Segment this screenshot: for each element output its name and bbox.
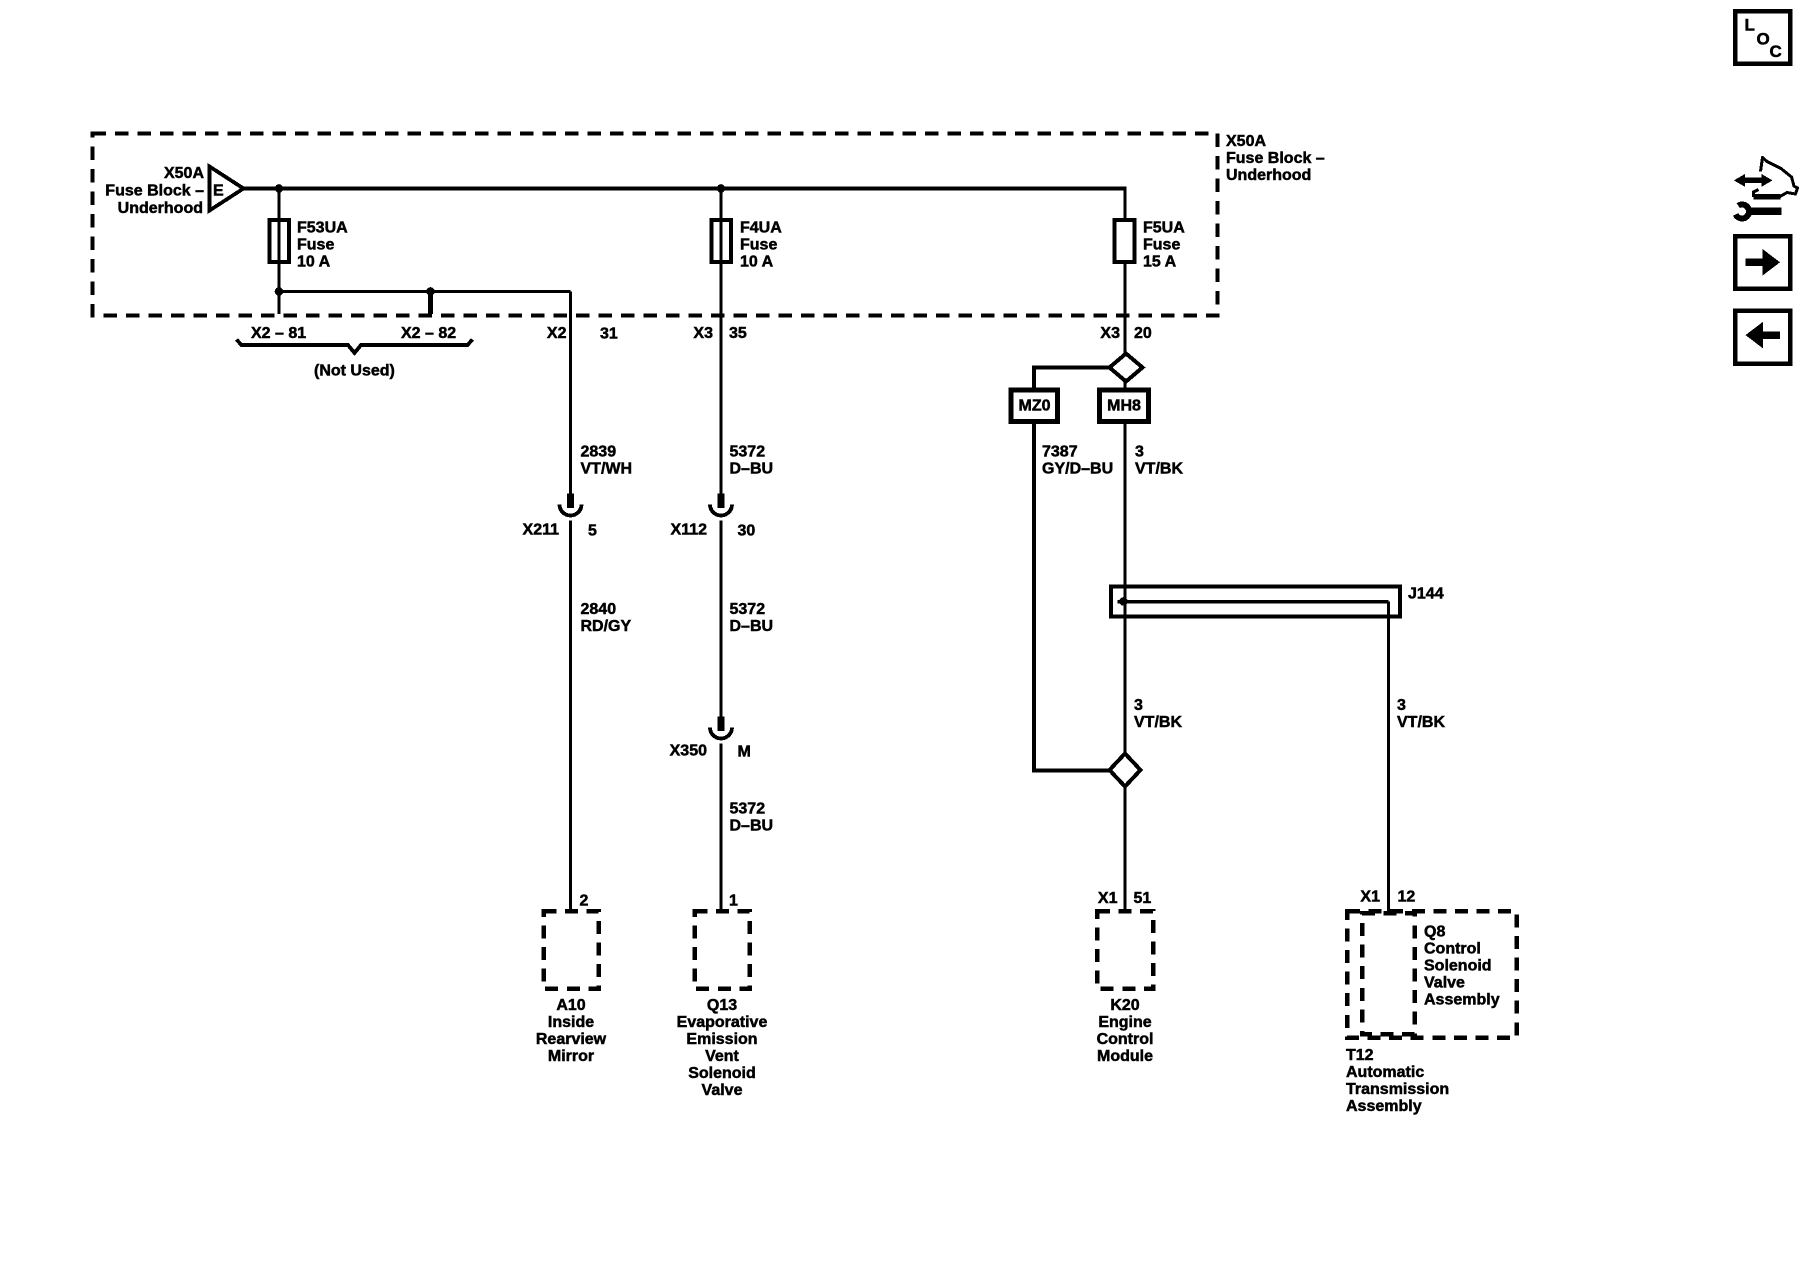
main bus wire [243, 186, 1125, 190]
svg-text:Fuse: Fuse [740, 237, 777, 254]
svg-text:VT/BK: VT/BK [1135, 461, 1183, 478]
wire 3 VT/BK from MH8 [1123, 422, 1126, 754]
svg-text:Control: Control [1097, 1031, 1154, 1048]
svg-text:10 A: 10 A [740, 254, 774, 271]
icon vehicle base bar [1754, 194, 1781, 200]
wire diamond to MZ0 [1034, 368, 1109, 391]
connector MZ0 box [1011, 390, 1058, 422]
icon left arrow box [1735, 311, 1790, 364]
icon wrench handle [1748, 208, 1782, 216]
icon vehicle outline [1761, 158, 1798, 197]
svg-text:K20: K20 [1110, 997, 1139, 1014]
svg-text:Solenoid: Solenoid [688, 1065, 756, 1082]
icon right arrow box [1735, 236, 1790, 289]
svg-text:Q8: Q8 [1424, 924, 1445, 941]
svg-text:J144: J144 [1408, 586, 1444, 603]
component T12 outer dashed box [1347, 911, 1517, 1038]
svg-text:L: L [1745, 16, 1755, 35]
svg-text:51: 51 [1134, 890, 1152, 907]
node below fuse F53UA [275, 287, 284, 296]
node at F4UA tap [717, 184, 726, 193]
fuse F4UA [712, 220, 732, 262]
svg-text:Engine: Engine [1098, 1014, 1151, 1031]
svg-text:3: 3 [1397, 697, 1406, 714]
svg-text:VT/BK: VT/BK [1397, 714, 1445, 731]
connector MH8 box [1100, 390, 1149, 422]
svg-text:5: 5 [588, 523, 597, 540]
svg-text:Fuse: Fuse [1143, 237, 1180, 254]
wire horizontal to X2-31 drop [279, 290, 571, 293]
svg-text:X2 – 81: X2 – 81 [251, 325, 306, 342]
node at F53UA tap [275, 184, 284, 193]
power source triangle E [210, 167, 244, 211]
svg-text:(Not Used): (Not Used) [314, 363, 395, 380]
svg-text:MZ0: MZ0 [1019, 398, 1051, 415]
icon vehicle double arrow [1734, 174, 1773, 187]
svg-text:X2: X2 [547, 325, 567, 342]
splice pack J144 [1111, 587, 1400, 617]
svg-text:Q13: Q13 [707, 997, 737, 1014]
svg-text:Vent: Vent [705, 1048, 739, 1065]
node at X2-82 stub [426, 287, 435, 296]
icon LOC box [1735, 11, 1790, 64]
wire F5UA down [1123, 262, 1126, 354]
svg-text:Transmission: Transmission [1346, 1081, 1449, 1098]
svg-text:15 A: 15 A [1143, 254, 1177, 271]
wire diamond to MH8 [1123, 382, 1126, 391]
svg-text:Assembly: Assembly [1424, 992, 1500, 1009]
component Q13 dashed box [695, 911, 750, 989]
svg-text:Mirror: Mirror [548, 1048, 594, 1065]
fuse F5UA [1115, 220, 1135, 262]
svg-text:X211: X211 [523, 522, 560, 539]
connector X112 pin 30 [718, 494, 725, 509]
svg-text:A10: A10 [556, 997, 585, 1014]
svg-text:Automatic: Automatic [1346, 1064, 1424, 1081]
svg-text:F53UA: F53UA [297, 220, 348, 237]
svg-text:5372: 5372 [730, 444, 766, 461]
svg-text:Fuse: Fuse [297, 237, 334, 254]
component A10 dashed box [544, 911, 599, 989]
node inside J144 [1119, 597, 1128, 606]
svg-text:F5UA: F5UA [1143, 220, 1185, 237]
wire 7387 GY/D-BU [1034, 422, 1110, 771]
svg-text:MH8: MH8 [1107, 398, 1141, 415]
svg-text:31: 31 [600, 326, 618, 343]
wire bus to F53UA fuse [277, 189, 280, 292]
wire 3 VT/BK right from J144 [1387, 602, 1390, 912]
svg-text:Emission: Emission [686, 1031, 757, 1048]
svg-text:35: 35 [729, 325, 747, 342]
splice diamond upper [1110, 354, 1143, 382]
svg-text:Underhood: Underhood [118, 200, 203, 217]
wire bus to F4UA fuse [719, 189, 722, 494]
svg-text:RD/GY: RD/GY [581, 618, 632, 635]
svg-text:X3: X3 [1100, 325, 1120, 342]
component K20 dashed box [1097, 911, 1153, 989]
svg-text:Solenoid: Solenoid [1424, 958, 1492, 975]
svg-text:X1: X1 [1098, 890, 1118, 907]
svg-text:Valve: Valve [1424, 975, 1465, 992]
label X50A Fuse Block - Underhood (right of box) [1226, 133, 1325, 184]
svg-text:D–BU: D–BU [730, 461, 774, 478]
component Q8 inner dashed box [1362, 913, 1415, 1034]
svg-text:D–BU: D–BU [730, 818, 774, 835]
icon wrench head [1735, 205, 1749, 219]
svg-text:GY/D–BU: GY/D–BU [1042, 461, 1113, 478]
brace not used [237, 340, 473, 354]
wire to K20 [1123, 787, 1126, 912]
connector X350 pin M [718, 717, 725, 732]
svg-text:5372: 5372 [730, 601, 766, 618]
wire 2840 RD/GY [569, 521, 572, 912]
svg-text:10 A: 10 A [297, 254, 331, 271]
svg-text:Valve: Valve [702, 1082, 743, 1099]
svg-text:12: 12 [1398, 889, 1416, 906]
svg-text:X2 – 82: X2 – 82 [401, 325, 456, 342]
svg-text:3: 3 [1134, 697, 1143, 714]
svg-text:2: 2 [580, 893, 589, 910]
svg-text:X350: X350 [670, 743, 707, 760]
label X50A Fuse Block - Underhood (left of triangle) [105, 165, 204, 217]
wire 5372 D-BU middle [719, 521, 722, 717]
svg-text:X50A: X50A [164, 165, 204, 182]
svg-text:5372: 5372 [730, 801, 766, 818]
svg-text:VT/BK: VT/BK [1134, 714, 1182, 731]
wire stub X2-81 [277, 292, 280, 315]
svg-text:Fuse Block –: Fuse Block – [105, 183, 204, 200]
wire 2839 VT/WH [569, 292, 572, 494]
svg-text:Evaporative: Evaporative [677, 1014, 768, 1031]
svg-text:2839: 2839 [581, 444, 617, 461]
svg-text:20: 20 [1134, 325, 1152, 342]
svg-text:X112: X112 [671, 522, 708, 539]
svg-text:Underhood: Underhood [1226, 167, 1311, 184]
wire 5372 D-BU lower [719, 744, 722, 912]
svg-text:7387: 7387 [1042, 444, 1078, 461]
svg-text:O: O [1757, 30, 1770, 49]
svg-text:T12: T12 [1346, 1047, 1374, 1064]
connector X211 pin 5 [567, 494, 574, 509]
svg-text:X1: X1 [1360, 889, 1380, 906]
svg-text:Fuse Block –: Fuse Block – [1226, 150, 1325, 167]
svg-text:Module: Module [1097, 1048, 1153, 1065]
fuse F53UA [270, 220, 290, 262]
svg-text:X3: X3 [693, 325, 713, 342]
svg-text:1: 1 [729, 893, 738, 910]
svg-text:M: M [738, 744, 751, 761]
svg-text:E: E [213, 183, 224, 200]
svg-text:F4UA: F4UA [740, 220, 782, 237]
bus bar inside J144 [1118, 600, 1389, 604]
splice diamond lower [1110, 754, 1141, 787]
svg-text:Assembly: Assembly [1346, 1098, 1422, 1115]
wire bus corner to F5UA [1123, 186, 1126, 220]
svg-text:3: 3 [1135, 444, 1144, 461]
svg-text:X50A: X50A [1226, 133, 1266, 150]
svg-text:Inside: Inside [548, 1014, 594, 1031]
svg-text:D–BU: D–BU [730, 618, 774, 635]
svg-text:2840: 2840 [581, 601, 617, 618]
svg-text:C: C [1770, 42, 1782, 61]
svg-text:Rearview: Rearview [536, 1031, 607, 1048]
wire stub X2-82 [428, 292, 433, 315]
svg-text:VT/WH: VT/WH [581, 461, 633, 478]
fuse block X50A dashed outline [93, 134, 1218, 316]
svg-text:30: 30 [738, 523, 756, 540]
svg-text:Control: Control [1424, 941, 1481, 958]
